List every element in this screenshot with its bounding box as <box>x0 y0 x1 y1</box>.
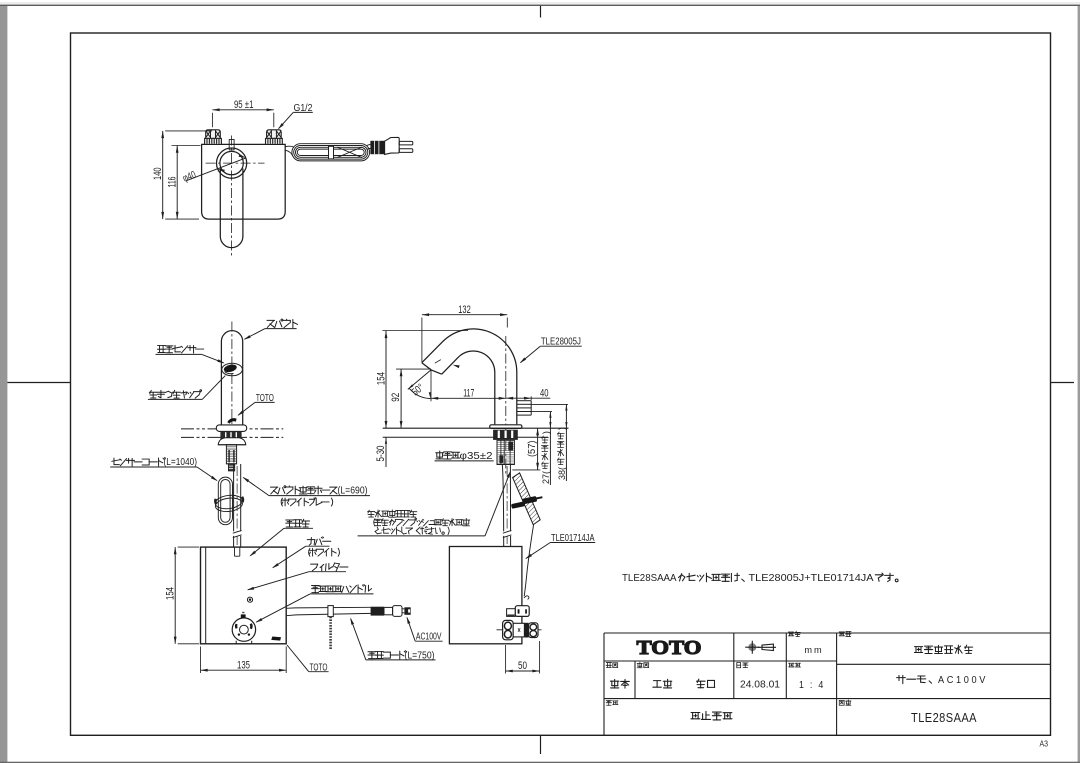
svg-text:TLE28005J+TLE01714JA: TLE28005J+TLE01714JA <box>749 572 874 584</box>
svg-text:(L=690): (L=690) <box>338 485 368 496</box>
svg-text:): ) <box>557 427 567 430</box>
svg-text:TOTO: TOTO <box>637 638 702 659</box>
svg-text:A3: A3 <box>1040 740 1049 749</box>
svg-text:135: 135 <box>237 660 250 672</box>
svg-text:1 : 4: 1 : 4 <box>799 680 825 691</box>
svg-text:117: 117 <box>463 388 474 400</box>
svg-text:mm: mm <box>804 645 823 655</box>
svg-text:24.08.01: 24.08.01 <box>740 679 780 691</box>
svg-text:132: 132 <box>458 304 471 316</box>
svg-text:50: 50 <box>518 660 527 672</box>
svg-text:TLE28SAAA: TLE28SAAA <box>622 572 677 584</box>
svg-text:5-30: 5-30 <box>375 446 387 462</box>
svg-text:(L=1040): (L=1040) <box>164 457 198 468</box>
svg-text:92: 92 <box>390 393 402 402</box>
svg-text:154: 154 <box>164 587 176 600</box>
svg-text:116: 116 <box>167 177 179 188</box>
svg-text:): ) <box>541 431 551 434</box>
svg-text:95 ±1: 95 ±1 <box>234 99 254 111</box>
svg-text:38(: 38( <box>557 467 567 480</box>
svg-text:140: 140 <box>152 167 164 180</box>
svg-text:TLE28SAAA: TLE28SAAA <box>911 711 977 725</box>
svg-text:154: 154 <box>375 372 387 385</box>
svg-text:40: 40 <box>540 387 549 399</box>
svg-text:27(: 27( <box>541 471 551 484</box>
svg-text:(57): (57) <box>526 441 538 458</box>
svg-text:AC100V: AC100V <box>938 674 988 686</box>
